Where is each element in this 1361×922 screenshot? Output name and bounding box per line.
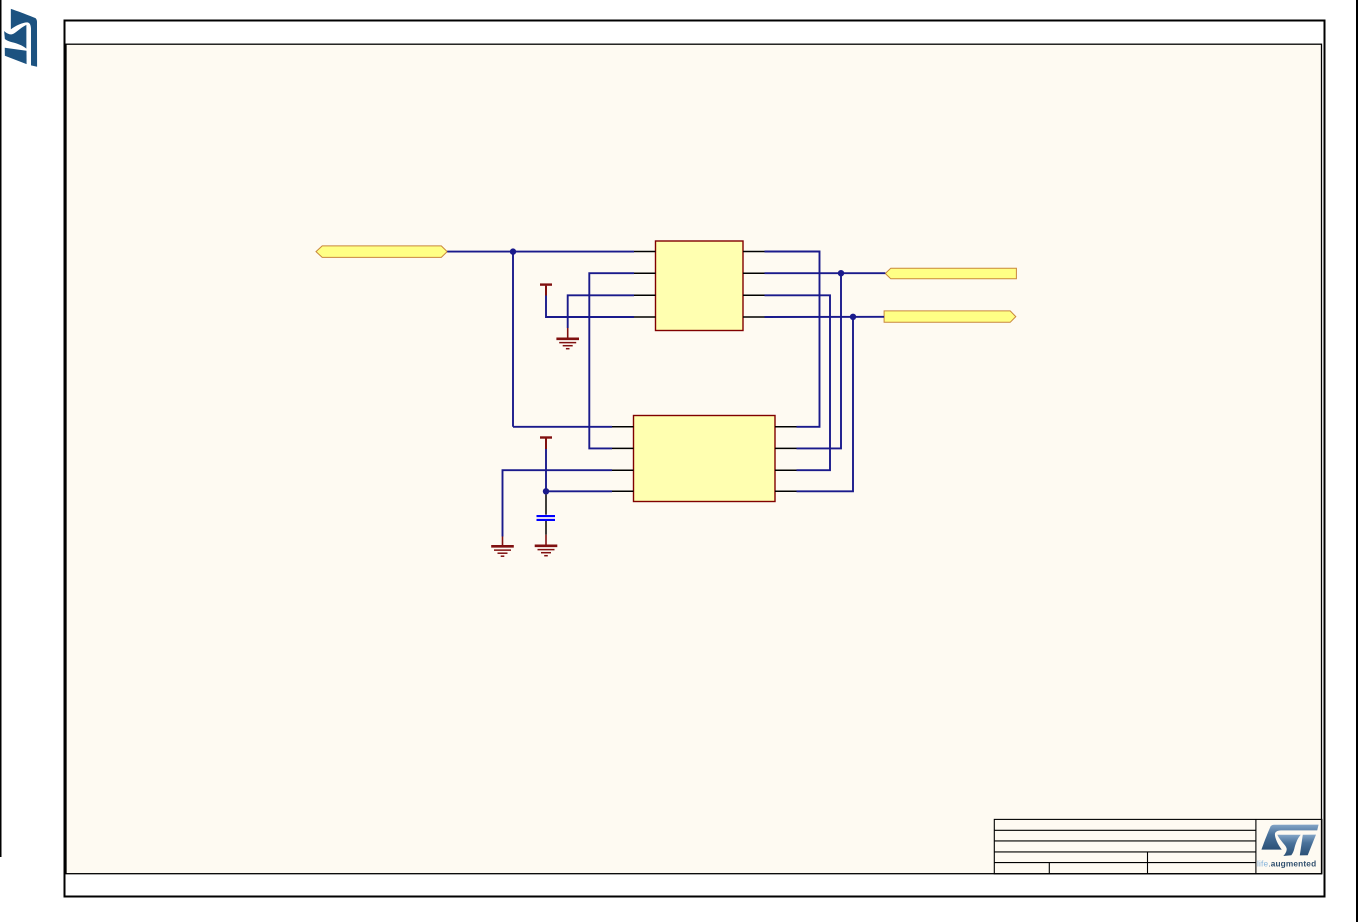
svg-text:life.augmented: life.augmented	[1257, 858, 1316, 868]
port P1 left	[316, 246, 447, 258]
U2 pin stubs	[612, 427, 797, 492]
wire U1 pin L2 to U2 pin L2	[589, 273, 634, 448]
port P3 right bottom	[884, 311, 1016, 322]
ground GND1 stub	[567, 328, 569, 338]
wire P1 to U1 pin L1	[447, 251, 634, 253]
wire U1 pin R2 to port P2	[765, 272, 886, 274]
junction node A	[510, 248, 516, 254]
ground GND1	[556, 339, 579, 349]
power flag PWR2	[540, 438, 552, 450]
junction node B	[543, 488, 549, 494]
capacitor C1 lead top	[545, 495, 547, 515]
wire U1 pin R1 to U2 pin R1	[765, 252, 820, 427]
wire node D to U2 pin R4	[797, 317, 854, 492]
capacitor C1 lead bottom	[545, 521, 547, 535]
ground GND2	[491, 546, 514, 556]
junction node C	[838, 270, 844, 276]
junction node D	[850, 314, 856, 320]
ground GND3 stub	[545, 535, 547, 546]
power flag PWR1	[540, 285, 552, 296]
ground GND2 stub	[502, 537, 504, 546]
wire U1 pin L3 to ground	[568, 295, 634, 328]
ST logo title block	[1262, 825, 1319, 856]
wire U1 pin R4 to port P3	[765, 316, 885, 318]
U1 pin stubs	[634, 252, 765, 318]
wire PWR1 to U1 pin L4	[546, 296, 634, 318]
wire to U2 pin L1	[513, 426, 612, 428]
ST logo sidebar (rotated)	[4, 9, 37, 67]
wire U1 pin R3 to U2 pin R3	[765, 295, 831, 470]
wire U2 pin L3 to ground	[503, 470, 613, 536]
wire node A down	[512, 252, 514, 427]
wire PWR2 down to node B	[545, 449, 547, 491]
port P2 right top	[885, 268, 1016, 279]
IC block U1	[656, 241, 744, 331]
wire node C to U2 pin R2	[797, 273, 842, 448]
capacitor C1	[537, 516, 556, 520]
ground GND3	[535, 546, 558, 556]
IC block U2	[634, 416, 776, 502]
wire node B to U2 pin L4	[546, 490, 612, 492]
